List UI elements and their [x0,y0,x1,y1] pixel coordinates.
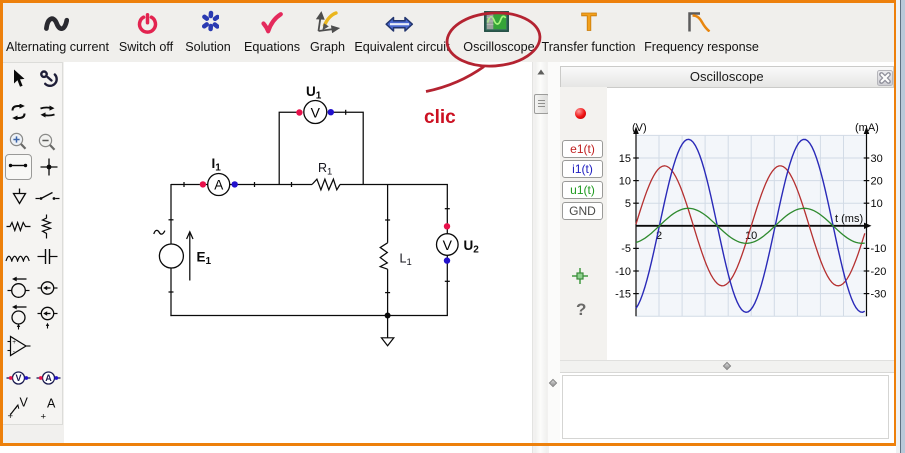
icon frequency response [688,12,713,32]
voltage source tool [7,276,30,299]
tick left wire upper [169,219,174,221]
resistor tool vertical [41,214,52,239]
E1 direction arrow [187,232,193,281]
switch tool [35,191,60,201]
ammeter I1 red terminal [200,181,206,187]
junction node [385,313,391,319]
controlled current source tool [37,306,58,329]
trace u1(t) green [636,208,865,243]
oscilloscope time axis [636,223,872,229]
svg-text:clic: clic [424,107,456,128]
label E1 [197,250,212,268]
wire L1 branch upper [387,185,389,243]
icon equivalent circuit [385,16,414,33]
ammeter tool [36,370,61,386]
svg-text:V: V [311,105,321,121]
label R1 [318,161,332,178]
voltage probe tool [7,395,31,420]
svg-text:A: A [214,178,223,193]
outer strip right of window [896,0,905,453]
toolbar buttons [0,40,148,54]
svg-text:5: 5 [625,198,631,210]
pointer tool [12,69,25,90]
top toolbar [3,3,894,63]
voltmeter U1 [304,101,327,124]
icon solution [202,10,220,32]
svg-text:V: V [443,237,453,253]
wire top left segment [171,184,312,186]
icon switch off [136,13,159,34]
wire right vertical [446,185,448,235]
svg-text:E1: E1 [197,250,212,268]
right axis arrowhead [864,127,870,135]
svg-text:-5: -5 [621,243,631,255]
svg-text:10: 10 [871,198,883,210]
svg-text:R1: R1 [318,161,332,178]
right axis labels [871,153,887,301]
annotation tail [426,67,484,92]
svg-text:U1: U1 [306,84,322,102]
wire left vertical [170,184,172,244]
wire tool (selected) [8,159,28,172]
icon graph [314,11,340,33]
ammeter I1 blue terminal [232,181,238,187]
capacitor tool [37,247,58,266]
left tool palette [3,62,64,443]
svg-text:t (ms): t (ms) [835,213,863,225]
tick right wire upper [445,208,450,210]
voltmeter U2 blue terminal [444,257,450,263]
current source tool [37,280,58,296]
label U2 [464,238,480,256]
svg-text:U2: U2 [464,238,480,256]
svg-text:(V): (V) [632,122,647,134]
zoom in tool [9,132,27,151]
tick right wire lower [445,280,450,282]
ammeter I1 [208,174,230,196]
wire right vertical lower [446,255,448,316]
splitter column with handle [548,62,560,443]
left axis arrowhead [633,127,639,135]
cut tool [38,70,60,89]
tick wire before resistor [291,182,293,187]
trace i1(t) blue [636,139,865,312]
svg-text:-10: -10 [615,266,631,278]
voltmeter U2 [437,234,459,256]
inductor L1 [380,243,387,269]
wire L1 branch lower [387,269,389,315]
svg-text:-20: -20 [871,266,887,278]
ground [381,316,393,346]
op-amp tool [7,335,32,357]
svg-text:-30: -30 [871,288,887,300]
wire top right segment [340,184,448,186]
svg-text:-15: -15 [615,288,631,300]
svg-text:30: 30 [871,153,883,165]
label L1 [400,252,412,269]
icon alternating current [44,14,69,34]
probe position icon [572,268,588,284]
annotation text clic [424,107,456,128]
E1 AC tilde symbol [154,230,165,234]
icon equations [261,12,283,35]
icon transfer function [579,11,599,33]
zoom out tool [38,133,56,152]
svg-text:10: 10 [619,175,631,187]
tick wire top [183,182,185,187]
rotate tool [10,104,27,120]
svg-text:-10: -10 [871,243,887,255]
tick L1 branch upper [385,219,390,221]
voltage source E1 [159,244,183,268]
left axis labels [615,153,631,301]
tick U1 right wire [345,110,347,115]
wire left vertical lower [170,268,172,316]
wire U1 right branch [334,112,364,184]
svg-text:15: 15 [619,153,631,165]
flip tool [39,105,56,118]
tick wire after ammeter [254,182,256,187]
svg-text:I1: I1 [212,156,222,174]
svg-text:20: 20 [871,175,883,187]
annotation ellipse [445,10,541,69]
current probe tool [39,396,59,420]
right oscilloscope panel [560,62,894,443]
label I1 [212,156,222,174]
oscilloscope right axis [864,129,870,316]
axis unit labels [632,122,879,242]
selection box around wire tool [5,154,32,180]
vertical scrollbar [532,62,549,453]
drawing canvas [64,62,533,443]
icon oscilloscope [484,11,509,32]
label U1 [306,84,322,102]
trace e1(t) red [636,166,865,286]
window frame orange borders [0,0,896,3]
inductor tool [5,251,30,262]
resistor tool horizontal [6,221,31,232]
oscilloscope plot background [636,135,867,316]
svg-text:(mA): (mA) [855,122,879,134]
wire bottom [170,315,448,317]
oscilloscope left axis [633,129,639,316]
ground tool [12,188,27,205]
resistor R1 [312,179,340,190]
wire U1 left branch [279,112,297,184]
voltmeter U1 blue terminal [328,109,334,115]
tick left wire lower [169,291,174,293]
node tool [40,158,58,176]
voltmeter tool [6,370,31,386]
tick L1 branch lower [385,292,390,294]
controlled voltage source tool [7,304,30,330]
oscilloscope grid [636,135,867,316]
voltmeter U2 red terminal [444,223,450,229]
voltmeter U1 red terminal [296,109,302,115]
svg-text:L1: L1 [400,252,412,269]
